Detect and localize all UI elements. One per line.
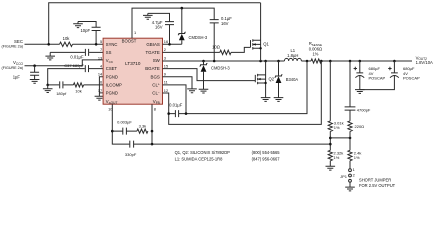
wire CL- pin 12 sense: [163, 61, 322, 124]
node junction SEC rail: [47, 43, 50, 46]
resistor 3.3k comp: [137, 123, 148, 133]
svg-text:1%: 1%: [334, 125, 340, 130]
svg-text:SW: SW: [153, 58, 161, 63]
ground (ILCOMP): [43, 85, 53, 93]
wire CL+ pin 11 sense: [163, 61, 308, 114]
svg-text:SHORT JUMPER: SHORT JUMPER: [359, 178, 391, 183]
diode CMDSH-3 (SW clamp): [200, 61, 231, 89]
capacitor 0.1uF 16V (boost): [210, 16, 233, 61]
transistor Q1 Si7892DP: [251, 3, 270, 61]
diode CMDSH-3 (boost): [178, 8, 208, 44]
svg-text:ILCOMP: ILCOMP: [106, 83, 122, 88]
svg-text:11: 11: [164, 80, 168, 85]
svg-text:L1: SUMIDA CEP125-1R8: L1: SUMIDA CEP125-1R8: [175, 157, 224, 162]
wire SS line: [50, 51, 103, 53]
node SEC label: [1, 39, 23, 49]
svg-text:2: 2: [164, 47, 166, 52]
svg-text:330pF: 330pF: [125, 152, 137, 157]
wire ground to 4.7uF top: [148, 13, 170, 21]
wire divider left chain top: [329, 61, 331, 121]
svg-text:GBIAS: GBIAS: [146, 42, 159, 47]
wire top rail SEC to Q1 drain: [49, 3, 261, 45]
svg-text:SS: SS: [106, 50, 112, 55]
svg-text:4700pF: 4700pF: [357, 108, 371, 113]
wire PGND pins 14+17 to ground: [99, 77, 103, 97]
ground (10pF): [73, 22, 83, 28]
wire VFB pin 8 run: [152, 104, 330, 144]
svg-text:3.3k: 3.3k: [139, 123, 147, 128]
wire 2.32k to ground: [329, 161, 331, 167]
svg-text:10pF: 10pF: [80, 28, 90, 33]
svg-text:13: 13: [98, 55, 102, 60]
svg-text:B340A: B340A: [286, 77, 299, 82]
svg-text:VAOUT: VAOUT: [106, 99, 118, 105]
ground (BGS): [187, 89, 197, 93]
capacitor 4.7uF 16V: [152, 20, 174, 44]
wire VCCO to VCC pin 13: [25, 60, 104, 66]
svg-text:10k: 10k: [75, 88, 81, 93]
inductor L1 1.8uH: [284, 48, 301, 61]
capacitor 0.01uF (SS): [70, 49, 88, 60]
svg-text:0.01µF: 0.01µF: [70, 55, 84, 60]
svg-text:POSCAP: POSCAP: [369, 76, 386, 81]
node VCCO label: [1, 60, 23, 70]
ground (output caps): [355, 90, 365, 94]
wire 10pF to SYNC line: [95, 31, 97, 45]
node junction GBIAS/4.7uF: [168, 43, 171, 46]
svg-text:Q2: Q2: [269, 77, 275, 82]
svg-text:JP1: JP1: [340, 174, 348, 179]
svg-text:C37 680pF: C37 680pF: [64, 63, 84, 68]
svg-text:1: 1: [134, 30, 136, 35]
resistor 220 ohm: [348, 121, 364, 131]
op-amp U1 LT3710 regulator IC: [103, 38, 162, 105]
svg-text:BGATE: BGATE: [145, 66, 160, 71]
svg-text:1µF: 1µF: [13, 75, 21, 80]
capacitor 180pf: [56, 81, 67, 96]
wire BGATE pin 15 to Q2 gate: [163, 69, 256, 81]
wire ILCOMP line: [48, 84, 103, 86]
svg-text:2: 2: [353, 172, 355, 177]
transistor Q2 Si7892DP: [255, 61, 274, 98]
svg-text:16: 16: [164, 39, 168, 44]
svg-text:(800) 554-5565: (800) 554-5565: [252, 150, 281, 155]
capacitor C2 680uF POSCAP: [360, 61, 420, 90]
svg-text:1.8V/10A: 1.8V/10A: [416, 60, 433, 65]
svg-text:1.8µH: 1.8µH: [287, 53, 298, 58]
node junction VAOUT comp: [111, 130, 114, 133]
node junction BOOST/CMDSH-3: [181, 7, 184, 10]
svg-text:10k: 10k: [63, 36, 71, 41]
wire ground to 10pF: [78, 22, 96, 28]
capacitor C1 680uF POSCAP: [354, 61, 386, 90]
node VOUT2 label: [416, 55, 433, 65]
svg-text:1: 1: [353, 167, 355, 172]
wire feedback chain top: [349, 61, 351, 107]
ground (B340A): [274, 98, 284, 102]
ground (1uF): [30, 80, 40, 84]
svg-text:SEC: SEC: [14, 39, 23, 44]
svg-text:1%: 1%: [354, 155, 360, 160]
svg-text:BOOST: BOOST: [122, 39, 137, 44]
svg-text:PGND: PGND: [106, 91, 118, 96]
svg-text:1%: 1%: [312, 52, 318, 57]
pin numbers left side: [98, 39, 103, 93]
wire 3.01k to VFB node: [329, 131, 331, 150]
svg-text:0.003µF: 0.003µF: [117, 120, 132, 125]
capacitor C37 680pF: [64, 63, 88, 72]
wire 220 ohm to 2.4k: [349, 131, 351, 150]
wire BOOST pin 1 rail: [132, 8, 214, 38]
capacitor 0.01uF (sense filter): [169, 103, 186, 118]
ground (SS cap): [45, 52, 55, 60]
ground (2.32k): [326, 166, 336, 170]
wire TGATE pin 2 to Q1 gate: [163, 47, 251, 52]
svg-text:17: 17: [98, 88, 102, 93]
svg-text:CMDSH-3: CMDSH-3: [189, 35, 208, 40]
svg-text:PGND: PGND: [106, 74, 118, 79]
svg-text:LT3710: LT3710: [125, 61, 141, 66]
node junctions divider: [329, 137, 332, 140]
wire GBIAS pin 16: [163, 43, 182, 45]
node junction CSET/ILCOMP: [46, 84, 49, 87]
svg-text:(FIGURE 2a): (FIGURE 2a): [1, 44, 23, 48]
wire divider cross tie: [330, 137, 350, 139]
svg-text:5: 5: [100, 39, 102, 44]
svg-text:3: 3: [164, 55, 166, 60]
node junctions sense cap: [167, 112, 170, 115]
svg-text:0.01µF: 0.01µF: [169, 103, 183, 108]
wire VAOUT pin 10 comp network: [112, 104, 152, 144]
resistor 10k (ILCOMP): [73, 83, 83, 94]
note short jumper: [359, 178, 396, 189]
svg-text:16V: 16V: [221, 21, 229, 26]
jumper JP1: [340, 161, 355, 188]
wire SW net pin 3 to output: [163, 60, 413, 62]
svg-text:6: 6: [100, 80, 102, 85]
wire BGS pin 9 to ground: [163, 77, 193, 89]
svg-text:VFB: VFB: [153, 99, 160, 105]
svg-text:1%: 1%: [334, 155, 340, 160]
ground (SW clamp diode): [199, 89, 209, 93]
resistor 10 ohm: [212, 45, 231, 55]
resistor RSENSE 0.006 ohm: [309, 41, 322, 63]
svg-text:16V: 16V: [155, 25, 163, 30]
node junctions on SW/output line: [202, 60, 205, 63]
ground (PGND): [95, 96, 105, 100]
svg-text:14: 14: [98, 72, 103, 77]
svg-text:180pf: 180pf: [56, 91, 67, 96]
svg-text:FOR 2.5V OUTPUT: FOR 2.5V OUTPUT: [359, 183, 396, 188]
svg-text:Q1: Q1: [263, 41, 269, 46]
pin numbers right side: [164, 39, 168, 93]
svg-text:10Ω: 10Ω: [212, 45, 220, 50]
resistor 2.32k 1%: [328, 150, 343, 161]
node junctions VFB: [151, 130, 154, 133]
svg-text:SYNC: SYNC: [106, 42, 118, 47]
capacitor 0.003uF comp: [112, 120, 137, 135]
capacitor 330pF comp: [125, 141, 137, 157]
wire SEC to SYNC pin 5: [25, 43, 104, 45]
resistor 2.4k 1%: [348, 150, 361, 161]
svg-text:TGATE: TGATE: [145, 50, 159, 55]
svg-text:POSCAP: POSCAP: [403, 76, 420, 81]
svg-text:VCC: VCC: [106, 58, 114, 64]
capacitor 4700pF: [345, 107, 371, 121]
svg-text:0.006Ω: 0.006Ω: [309, 46, 322, 51]
resistor 3.01k 1%: [328, 120, 343, 131]
ground (Q2 source): [261, 98, 271, 102]
svg-text:(FIGURE 2a): (FIGURE 2a): [1, 66, 23, 70]
node junction VCCO/1uF: [33, 64, 36, 67]
svg-text:4: 4: [100, 63, 103, 68]
svg-text:15: 15: [164, 63, 168, 68]
svg-text:12: 12: [164, 88, 168, 93]
ground (JP1): [345, 187, 355, 191]
ground (4.7uF): [143, 13, 153, 19]
svg-text:CMDSH-3: CMDSH-3: [211, 66, 230, 71]
svg-text:BGS: BGS: [151, 74, 160, 79]
note transistor and inductor sourcing: [175, 150, 281, 162]
svg-text:Q1, Q2: SILICONIX Si7892DP: Q1, Q2: SILICONIX Si7892DP: [175, 150, 231, 155]
node junction SYNC/10pF: [95, 43, 98, 46]
svg-text:220Ω: 220Ω: [355, 124, 365, 129]
diode B340A: [275, 61, 299, 98]
svg-text:(847) 956-0667: (847) 956-0667: [252, 157, 281, 162]
wire CSET pin 4 branch: [48, 69, 103, 85]
resistor 10k (SYNC): [60, 36, 73, 47]
svg-text:CSET: CSET: [106, 66, 118, 71]
svg-text:8: 8: [154, 106, 156, 111]
svg-text:7: 7: [100, 47, 102, 52]
svg-text:9: 9: [164, 72, 166, 77]
capacitor 1uF: [13, 66, 39, 80]
capacitor 10pF: [80, 27, 100, 33]
